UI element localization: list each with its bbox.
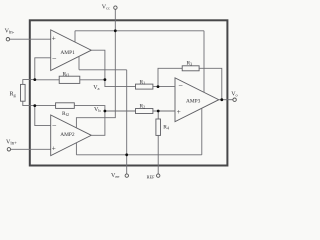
resistor R2 bbox=[136, 109, 153, 114]
svg-text:+: + bbox=[52, 34, 56, 43]
wire Rf1 right to node Va bbox=[80, 79, 105, 81]
wire AMP3 V- riser bbox=[201, 108, 203, 155]
svg-text:Rf1: Rf1 bbox=[63, 72, 70, 78]
wire Vin+ input bbox=[11, 148, 51, 150]
terminal REF bbox=[157, 174, 160, 177]
node Vee/h5 bbox=[125, 153, 128, 156]
wire R4 bottom to REF terminal bbox=[157, 135, 159, 174]
wire AMP1 inverting input to node bbox=[35, 58, 51, 80]
resistor R1 bbox=[136, 84, 153, 89]
svg-text:Vcc: Vcc bbox=[102, 5, 110, 11]
terminal Vin- bbox=[6, 38, 9, 41]
svg-text:Vin+: Vin+ bbox=[6, 140, 17, 147]
wire node down to R4 bbox=[157, 111, 159, 119]
wire node to AMP2 inverting input bbox=[35, 106, 51, 126]
svg-text:Va: Va bbox=[93, 85, 99, 91]
wire R2 right to AMP3 non-inverting input bbox=[153, 110, 175, 112]
resistor Rf2 bbox=[56, 103, 75, 109]
svg-text:−: − bbox=[178, 82, 183, 91]
wire AMP1 V+ stub bbox=[74, 31, 76, 42]
svg-text:R2: R2 bbox=[140, 104, 146, 110]
wire node Vb to R2 bbox=[105, 110, 136, 112]
svg-text:Vo: Vo bbox=[231, 92, 237, 98]
IC package border bbox=[30, 20, 228, 165]
svg-text:AMP3: AMP3 bbox=[186, 98, 201, 104]
op-amp AMP1 bbox=[51, 30, 92, 71]
wire AMP2 V- stub bbox=[75, 143, 77, 155]
node Vcc junction bbox=[114, 29, 117, 32]
wire Vcc branch down to AMP2 V+ bbox=[76, 31, 115, 128]
svg-text:AMP1: AMP1 bbox=[60, 50, 75, 56]
wire Rf2 right to node Vb bbox=[74, 106, 105, 111]
wire Rg bottom stub bbox=[23, 101, 35, 105]
wire R1 right to AMP3 inverting input bbox=[153, 86, 175, 88]
resistor R3 bbox=[182, 66, 199, 71]
node R2/AMP3+ bbox=[157, 110, 160, 113]
wire node Va down to R1 bbox=[105, 80, 136, 87]
resistor Rf1 bbox=[59, 76, 80, 83]
svg-text:R1: R1 bbox=[140, 79, 146, 85]
wire feedback node up to R3 bbox=[158, 68, 182, 86]
terminal Vcc bbox=[114, 6, 117, 9]
wire Vee vertical bbox=[126, 70, 128, 174]
svg-text:R3: R3 bbox=[187, 61, 193, 67]
wire R3 right to output node bbox=[199, 68, 222, 99]
svg-text:+: + bbox=[52, 144, 56, 153]
op-amp AMP2 bbox=[51, 115, 92, 156]
svg-text:REF: REF bbox=[147, 174, 155, 179]
node Va bbox=[104, 78, 107, 81]
wire Vcc drop bbox=[114, 9, 116, 31]
resistor Rg (external) bbox=[21, 84, 26, 101]
wire bottom Vee rail h5 bbox=[76, 154, 201, 156]
svg-text:Rf2: Rf2 bbox=[62, 111, 69, 117]
wire node to Rf1 left bbox=[35, 79, 59, 81]
node R1/AMP3- bbox=[157, 85, 160, 88]
svg-text:AMP2: AMP2 bbox=[60, 132, 75, 138]
node output bbox=[220, 98, 223, 101]
node Rg top bbox=[33, 78, 36, 81]
terminal Vin+ bbox=[7, 148, 10, 151]
svg-text:Vee: Vee bbox=[111, 173, 119, 179]
wire Vcc rail bbox=[75, 30, 204, 32]
resistor R4 bbox=[156, 119, 161, 135]
node Vb bbox=[104, 110, 107, 113]
svg-text:R4: R4 bbox=[163, 125, 169, 131]
wire AMP1 V- rail to Vee line bbox=[79, 69, 127, 71]
svg-text:−: − bbox=[52, 54, 57, 63]
svg-text:+: + bbox=[177, 107, 181, 116]
wire Vin- input bbox=[10, 38, 51, 40]
svg-text:−: − bbox=[52, 121, 57, 130]
wire Vcc down to AMP3 V+ bbox=[203, 31, 205, 93]
node Rg bottom bbox=[33, 104, 36, 107]
wire Rg bottom node to Rf2 left bbox=[35, 105, 56, 107]
svg-text:Rg: Rg bbox=[10, 91, 17, 97]
wire AMP1 output to node Va bbox=[91, 50, 105, 79]
wire AMP1 V- stub bbox=[78, 56, 80, 69]
wire AMP2 output to node Vb bbox=[91, 111, 105, 135]
terminal Vo bbox=[233, 98, 236, 101]
wire Rg top stub bbox=[23, 80, 35, 85]
op-amp AMP3 bbox=[175, 78, 219, 122]
wire AMP3 output to Vo bbox=[219, 99, 233, 101]
terminal Vee bbox=[125, 174, 128, 177]
svg-text:Vb: Vb bbox=[94, 107, 101, 113]
svg-text:Vin-: Vin- bbox=[5, 28, 15, 35]
